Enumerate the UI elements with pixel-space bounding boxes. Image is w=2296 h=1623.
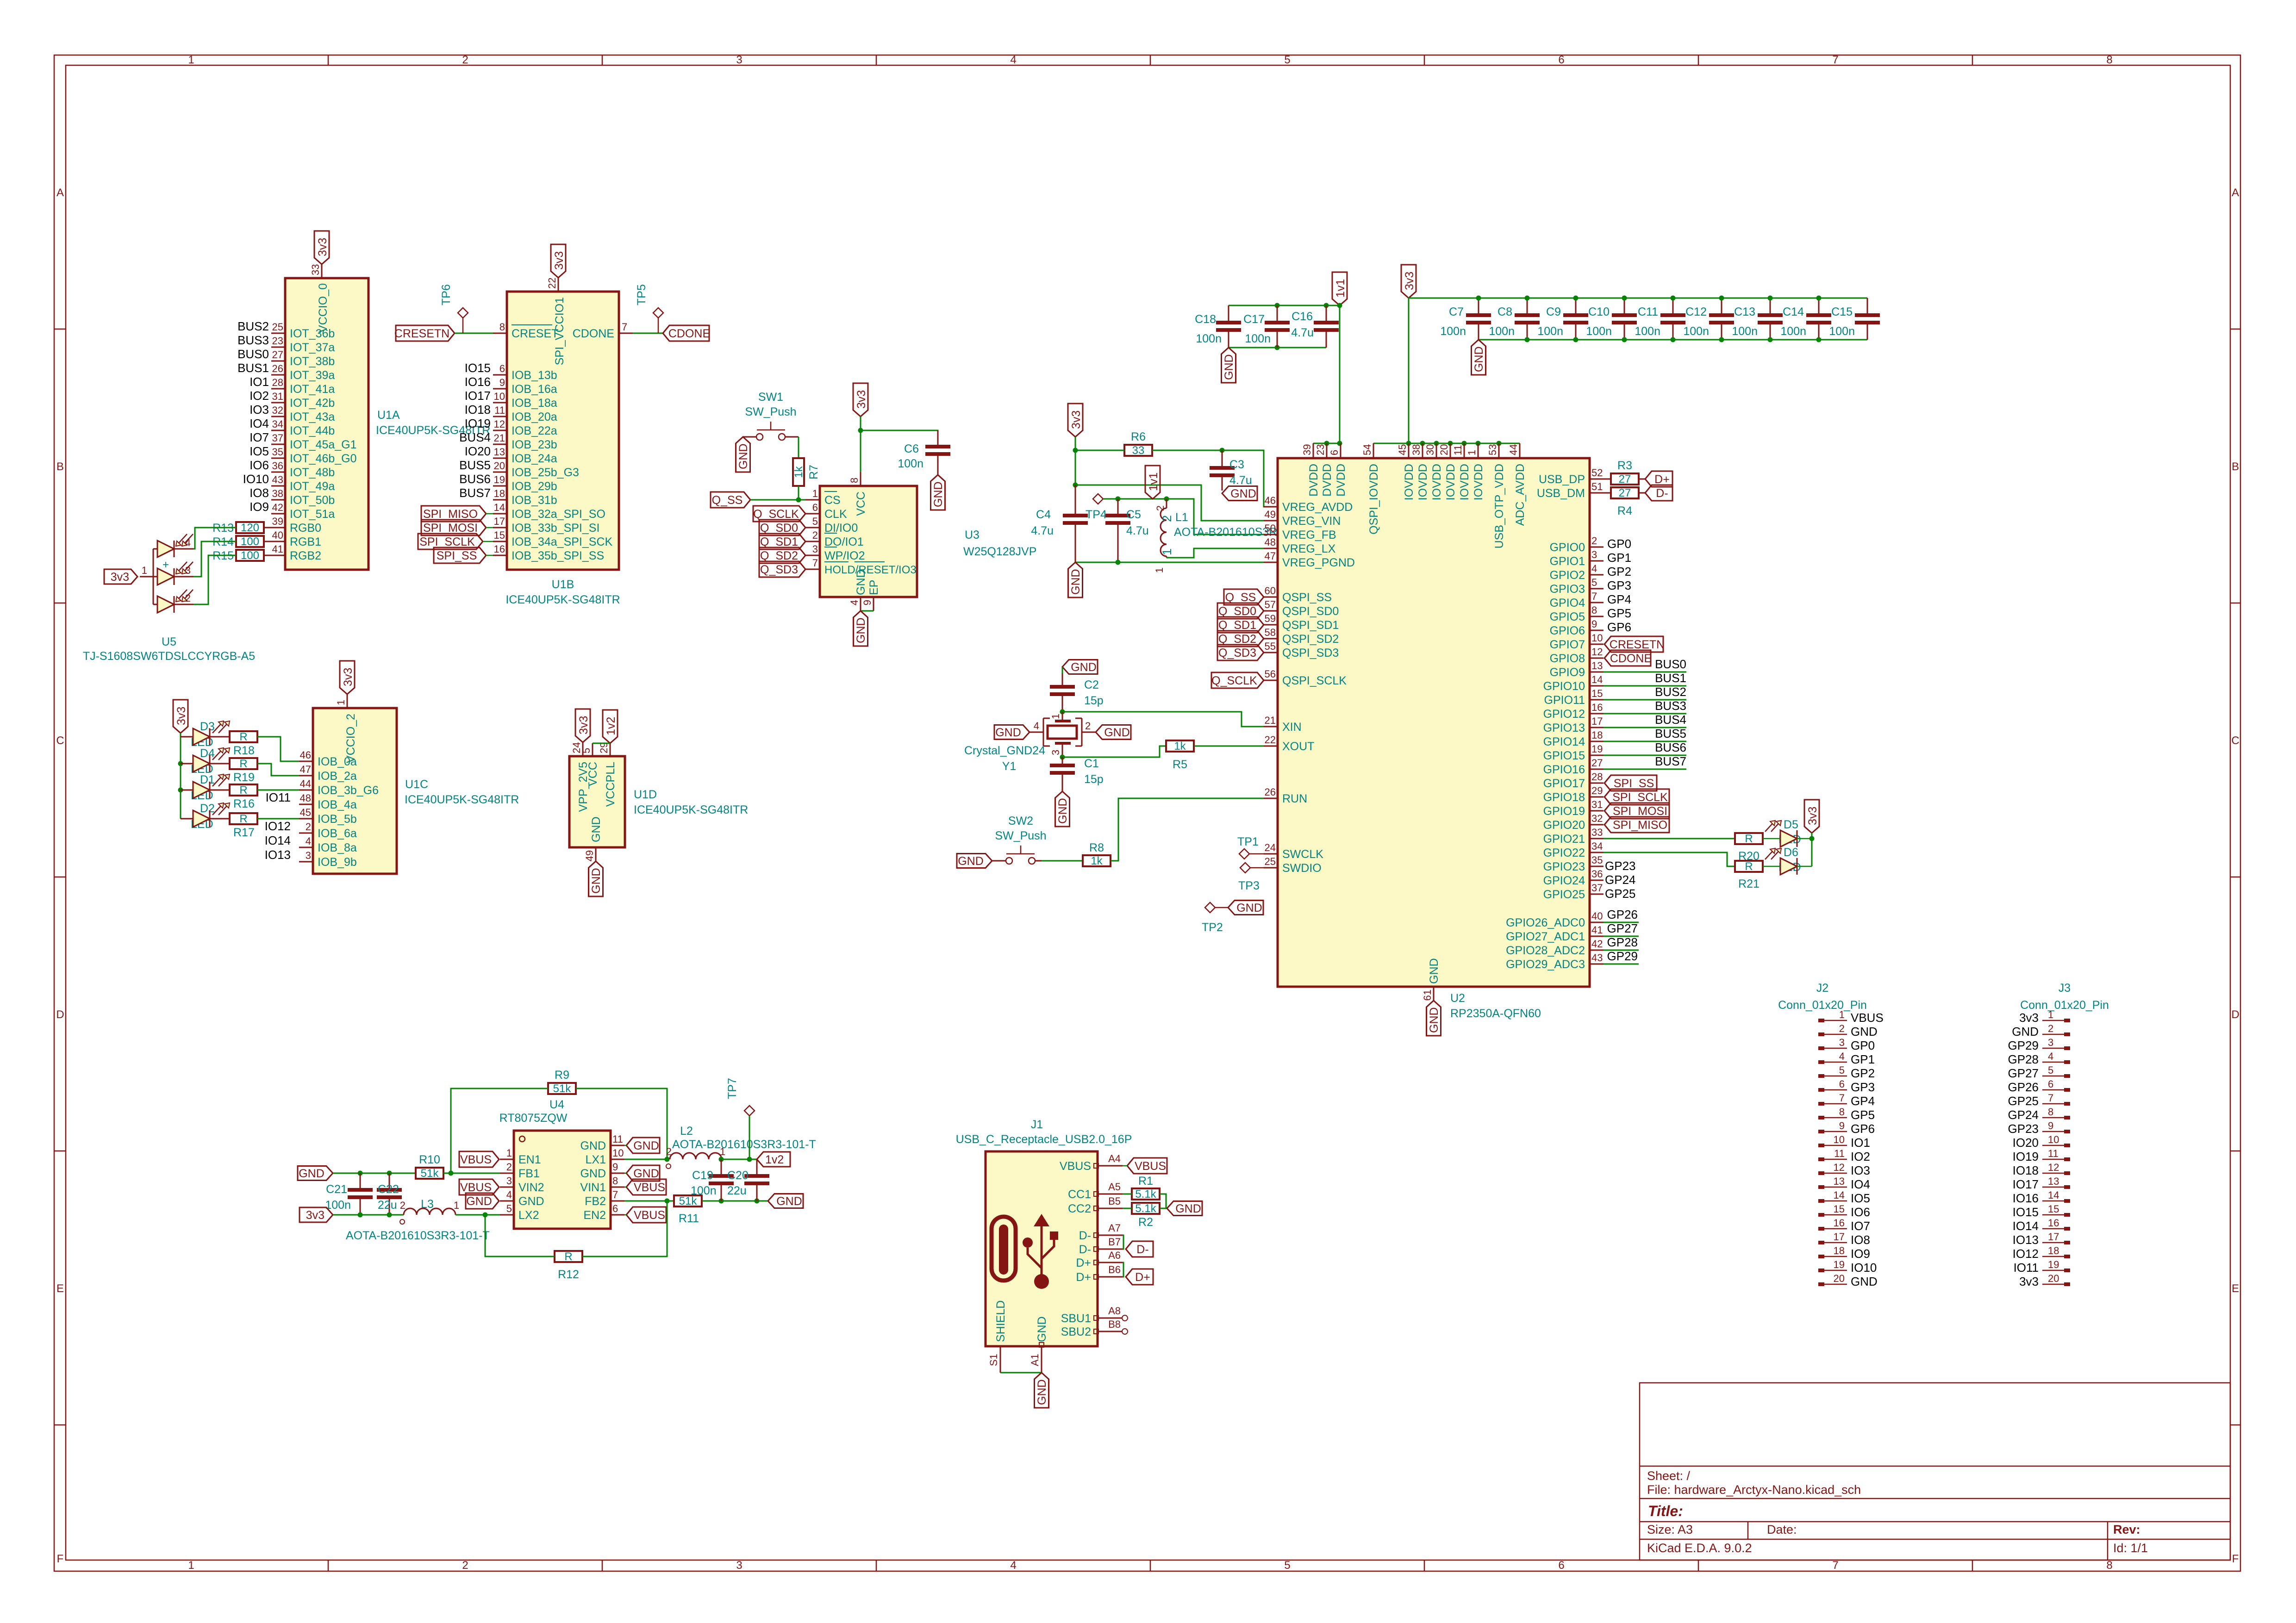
wire Q_SS to U3 pin 1: [750, 499, 805, 501]
wire BUS1: [1603, 685, 1686, 687]
wire: [861, 430, 938, 447]
svg-text:AOTA-B201610S3R3-101-T: AOTA-B201610S3R3-101-T: [346, 1229, 490, 1242]
regulator U4 RT8075ZQW: [499, 1098, 611, 1229]
resistor R9 51k: [548, 1083, 576, 1094]
svg-text:SPI_MISO: SPI_MISO: [423, 508, 478, 521]
pin 2 DO/IO1 of U3: [805, 529, 864, 548]
svg-text:6: 6: [2048, 1078, 2053, 1090]
wire 3v3 rail to L3: [333, 1214, 404, 1216]
svg-text:ICE40UP5K-SG48ITR: ICE40UP5K-SG48ITR: [634, 803, 748, 816]
wire CC1 to R1: [1123, 1194, 1132, 1195]
junction: [178, 761, 183, 766]
pin 23 IOT_37a of U1A: [271, 335, 335, 354]
test point TP4: [1093, 494, 1103, 504]
svg-text:2: 2: [462, 54, 468, 66]
svg-text:R: R: [239, 758, 247, 770]
svg-text:C20: C20: [727, 1169, 749, 1182]
svg-text:BUS2: BUS2: [1655, 685, 1686, 699]
pin 46 VREG_AVDD of U2: [1264, 495, 1353, 514]
svg-text:R: R: [1745, 833, 1753, 845]
capacitor C12 100n: [1721, 298, 1722, 315]
svg-text:40: 40: [272, 529, 283, 541]
svg-text:R: R: [239, 813, 247, 825]
svg-text:C: C: [56, 734, 64, 747]
svg-text:A5: A5: [1108, 1181, 1121, 1193]
svg-text:C5: C5: [1126, 508, 1141, 521]
svg-text:100n: 100n: [1440, 325, 1466, 338]
svg-text:GND: GND: [1851, 1025, 1878, 1038]
svg-text:IO2: IO2: [1851, 1150, 1870, 1163]
svg-text:GP4: GP4: [1607, 592, 1631, 606]
svg-text:GND: GND: [855, 617, 867, 643]
svg-text:C2: C2: [1084, 678, 1099, 691]
junction: [747, 1157, 752, 1162]
svg-text:20: 20: [1438, 444, 1450, 455]
svg-text:QSPI_SD3: QSPI_SD3: [1282, 647, 1339, 659]
svg-text:IO8: IO8: [250, 486, 269, 500]
pin 20 of J3: [2042, 1273, 2070, 1286]
svg-text:36: 36: [1591, 868, 1603, 880]
svg-text:D: D: [2231, 1008, 2239, 1021]
svg-text:13: 13: [1834, 1175, 1845, 1187]
svg-text:BUS1: BUS1: [1655, 671, 1686, 685]
svg-text:3: 3: [306, 850, 311, 861]
global label D+ at J1: [1126, 1269, 1153, 1285]
svg-text:IO13: IO13: [2013, 1233, 2039, 1247]
svg-text:File: hardware_Arctyx-Nano.kic: File: hardware_Arctyx-Nano.kicad_sch: [1647, 1483, 1861, 1497]
svg-text:3v3: 3v3: [1806, 807, 1819, 825]
pin 24 VPP_2V5 of U1D: [582, 742, 584, 756]
svg-text:GP5: GP5: [1607, 606, 1631, 620]
capacitor C18 100n: [1228, 305, 1229, 323]
svg-text:1v2: 1v2: [765, 1153, 784, 1166]
svg-text:17: 17: [1591, 715, 1603, 727]
test point TP5: [653, 308, 663, 318]
svg-text:26: 26: [272, 363, 283, 374]
svg-text:1k: 1k: [1091, 855, 1103, 867]
pin 10 of J2: [1818, 1134, 1847, 1147]
pin 30 IOVDD of U2: [1424, 443, 1443, 500]
svg-text:4: 4: [849, 600, 860, 605]
push button SW1 SW_Push: [743, 391, 799, 440]
svg-text:16: 16: [1591, 702, 1603, 713]
junction: [1275, 345, 1280, 350]
svg-text:4: 4: [185, 537, 191, 548]
power flag 3v3 for U5: [104, 569, 137, 584]
svg-text:GP28: GP28: [1607, 935, 1638, 949]
svg-text:Q_SD1: Q_SD1: [1218, 619, 1256, 632]
pin 60 QSPI_SS of U2: [1264, 585, 1332, 604]
svg-text:12: 12: [1591, 646, 1603, 658]
ground flag label at U4 pin 9: [626, 1165, 660, 1181]
svg-text:F: F: [2232, 1553, 2239, 1565]
svg-text:TP4: TP4: [1086, 508, 1107, 521]
svg-text:16: 16: [1834, 1217, 1845, 1229]
svg-text:3v3: 3v3: [1403, 272, 1416, 290]
svg-text:20: 20: [494, 460, 505, 472]
svg-text:26: 26: [1265, 786, 1276, 798]
pin 34 GPIO22 of U2: [1543, 840, 1603, 859]
pin 1 of J3: [2042, 1009, 2070, 1022]
svg-text:IOB_9b: IOB_9b: [318, 856, 357, 869]
svg-text:IOT_43a: IOT_43a: [290, 410, 335, 423]
svg-text:36: 36: [272, 460, 283, 472]
svg-text:QSPI_SS: QSPI_SS: [1282, 591, 1332, 604]
svg-text:47: 47: [300, 764, 311, 775]
power flag 3v3 for D5 D6: [1804, 800, 1819, 833]
svg-text:34: 34: [1591, 840, 1603, 852]
svg-text:49: 49: [584, 850, 595, 861]
svg-text:GP3: GP3: [1851, 1080, 1875, 1094]
svg-text:5: 5: [1591, 577, 1597, 588]
svg-text:IOB_24a: IOB_24a: [512, 452, 557, 465]
wire: [1313, 443, 1341, 444]
svg-text:CS: CS: [824, 494, 841, 507]
junction: [665, 1199, 670, 1204]
svg-text:SW_Push: SW_Push: [745, 405, 796, 418]
ground flag for input caps: [298, 1166, 333, 1181]
svg-text:CRESETN: CRESETN: [394, 327, 449, 340]
inductor L1 AOTA-B201610S3R3-101-T: [1154, 499, 1318, 573]
pin 37 IOT_45a_G1 of U1A: [271, 432, 357, 451]
svg-text:29: 29: [1591, 785, 1603, 796]
svg-text:D1: D1: [200, 773, 215, 786]
svg-text:A7: A7: [1108, 1222, 1121, 1234]
pin 23 DVDD of U2: [1315, 443, 1334, 497]
svg-text:FB2: FB2: [585, 1195, 606, 1208]
ground flag for C4 C5: [1068, 562, 1083, 597]
svg-text:DVDD: DVDD: [1321, 464, 1334, 497]
svg-text:C9: C9: [1546, 305, 1561, 318]
svg-text:45: 45: [1397, 444, 1408, 455]
svg-text:CC2: CC2: [1068, 1202, 1091, 1215]
junction: [1525, 296, 1530, 301]
svg-text:B5: B5: [1108, 1195, 1121, 1207]
pin 22 SPI_VCCIO1 of U1B: [558, 278, 559, 292]
svg-text:IO19: IO19: [2013, 1150, 2039, 1163]
svg-text:3: 3: [506, 1175, 512, 1187]
svg-text:IOB_29b: IOB_29b: [512, 480, 557, 493]
capacitor C1 15p: [1062, 757, 1063, 765]
svg-text:GPIO0: GPIO0: [1550, 541, 1585, 554]
power flag 3v3 for VREG: [1068, 404, 1083, 437]
svg-text:53: 53: [1487, 444, 1498, 455]
svg-text:28: 28: [272, 377, 283, 388]
svg-text:J1: J1: [1031, 1118, 1043, 1131]
pin 12 of J3: [2042, 1162, 2070, 1175]
junction: [1406, 441, 1411, 446]
pin 14 of J2: [1818, 1189, 1847, 1203]
svg-text:R: R: [1745, 860, 1753, 873]
svg-text:55: 55: [1265, 640, 1276, 652]
svg-text:41: 41: [272, 543, 283, 555]
svg-text:QSPI_SD1: QSPI_SD1: [1282, 619, 1339, 632]
svg-text:ADC_AVDD: ADC_AVDD: [1514, 464, 1527, 526]
wire GPIO21 to R20: [1603, 838, 1735, 839]
svg-text:11: 11: [612, 1133, 623, 1145]
FPGA bank U1B ICE40UP5K-SG48ITR: [505, 292, 620, 606]
svg-text:GND: GND: [580, 1167, 606, 1180]
svg-text:46: 46: [1265, 495, 1276, 506]
test point TP3: [1240, 863, 1250, 873]
svg-text:IO19: IO19: [465, 417, 491, 430]
svg-text:XIN: XIN: [1282, 721, 1302, 734]
svg-text:IO15: IO15: [465, 361, 491, 375]
svg-text:E: E: [56, 1282, 64, 1295]
svg-text:VCCPLL: VCCPLL: [604, 762, 617, 807]
svg-text:42: 42: [272, 502, 283, 513]
pin A5 CC1 of J1: [1068, 1181, 1123, 1201]
svg-text:GPIO27_ADC1: GPIO27_ADC1: [1506, 930, 1585, 943]
svg-text:14: 14: [2048, 1189, 2059, 1201]
svg-text:14: 14: [1834, 1189, 1845, 1201]
wire GP29: [1603, 964, 1639, 965]
svg-text:+: +: [162, 559, 169, 571]
svg-text:GP2: GP2: [1607, 565, 1631, 578]
svg-text:GPIO5: GPIO5: [1550, 610, 1585, 623]
svg-text:BUS7: BUS7: [459, 486, 491, 500]
pin 7 FB2 of U4: [585, 1189, 624, 1208]
svg-text:GP5: GP5: [1851, 1108, 1875, 1122]
svg-text:GPIO23: GPIO23: [1543, 860, 1585, 873]
svg-text:1: 1: [1466, 450, 1478, 455]
global label Q_SD2: [759, 547, 805, 563]
svg-text:1: 1: [2048, 1009, 2053, 1020]
svg-text:USB_DP: USB_DP: [1539, 473, 1585, 486]
svg-text:R21: R21: [1738, 877, 1759, 890]
wire 1v1 down to U2 pin 6: [1339, 305, 1341, 443]
junction: [719, 1199, 724, 1204]
svg-text:CDONE: CDONE: [668, 327, 710, 340]
global label VBUS at VIN1: [626, 1179, 666, 1195]
svg-text:GP29: GP29: [1607, 949, 1638, 963]
svg-text:S1: S1: [988, 1354, 999, 1366]
junction: [1434, 441, 1439, 446]
svg-text:8: 8: [2048, 1106, 2053, 1118]
junction: [1476, 296, 1481, 301]
svg-text:IOT_51a: IOT_51a: [290, 508, 335, 521]
junction: [1719, 296, 1724, 301]
svg-text:5: 5: [1839, 1064, 1845, 1076]
svg-text:GND: GND: [776, 1195, 802, 1208]
svg-text:GND: GND: [1056, 798, 1069, 824]
pin 15 of J2: [1818, 1203, 1847, 1217]
wire TP4 to C5 L1 and VREG_FB: [1103, 499, 1264, 535]
svg-text:B: B: [56, 460, 64, 473]
pin 35 GPIO23 of U2: [1543, 854, 1603, 873]
frame column numbers bottom: [188, 1559, 2112, 1572]
test point TP2: [1205, 902, 1215, 913]
svg-text:RGB1: RGB1: [290, 535, 321, 548]
pin 3 VIN2 of U4: [500, 1175, 544, 1194]
capacitor C10 100n: [1624, 298, 1625, 315]
svg-text:A4: A4: [1108, 1153, 1121, 1164]
junction: [358, 1213, 363, 1218]
pin 43 GPIO29_ADC3 of U2: [1506, 952, 1603, 971]
junction: [1768, 337, 1773, 342]
power flag 3v3 for U1A: [314, 231, 329, 264]
svg-text:IO17: IO17: [2013, 1177, 2039, 1191]
wire SHIELD to GND: [1000, 1372, 1042, 1374]
svg-text:1: 1: [454, 1200, 459, 1211]
svg-text:3: 3: [2048, 1037, 2053, 1048]
svg-text:6: 6: [1839, 1078, 1845, 1090]
svg-text:IOB_32a_SPI_SO: IOB_32a_SPI_SO: [512, 508, 605, 521]
pin 7 GPIO4 of U2: [1550, 591, 1603, 609]
svg-text:Conn_01x20_Pin: Conn_01x20_Pin: [1778, 999, 1867, 1012]
pin 54 QSPI_IOVDD of U2: [1361, 443, 1380, 535]
svg-text:46: 46: [300, 749, 311, 761]
wire R11 to output GND rail: [702, 1200, 768, 1202]
svg-text:GP2: GP2: [1851, 1066, 1875, 1080]
pin 27 GPIO16 of U2: [1543, 757, 1603, 776]
ground flag for C6: [931, 475, 945, 510]
power flag 1v1 for VREG output: [1145, 466, 1160, 499]
global label SPI_SCLK: [418, 534, 483, 549]
svg-text:6: 6: [1558, 54, 1564, 66]
inductor L2 AOTA-B201610S3R3-101-T: [666, 1125, 816, 1169]
pin 28 IOT_41a of U1A: [271, 377, 335, 396]
svg-text:100n: 100n: [1489, 325, 1515, 338]
svg-text:37: 37: [1591, 882, 1603, 894]
ground flag for U2: [1427, 1001, 1441, 1036]
svg-text:1: 1: [188, 54, 194, 66]
pin 17 IOB_33b_SPI_SI of U1B: [493, 516, 599, 535]
LED element 3 of U5 (pin 2): [157, 596, 174, 613]
pin 7 of J2: [1818, 1092, 1847, 1106]
junction: [1573, 337, 1578, 342]
svg-text:AOTA-B201610S3R3-101-T: AOTA-B201610S3R3-101-T: [672, 1138, 816, 1151]
svg-text:VCC: VCC: [855, 491, 867, 516]
svg-text:4: 4: [1591, 563, 1597, 574]
svg-text:28: 28: [1591, 771, 1603, 783]
capacitor C5 4.7u: [1117, 499, 1119, 516]
svg-text:Q_SD3: Q_SD3: [760, 563, 798, 576]
junction: [1337, 441, 1342, 446]
power flag 3v3 for LED bank: [173, 700, 188, 733]
svg-text:16: 16: [494, 543, 505, 555]
resistor R2 5.1k: [1132, 1203, 1160, 1214]
pin S1 SHIELD of J1: [1000, 1346, 1001, 1373]
resistor R15: [236, 550, 264, 561]
pin 2 GPIO0 of U2: [1550, 535, 1603, 554]
svg-text:100n: 100n: [898, 457, 923, 470]
svg-text:VREG_FB: VREG_FB: [1282, 529, 1336, 541]
svg-text:IOT_48b: IOT_48b: [290, 466, 335, 479]
global label SPI_MISO: [421, 506, 486, 522]
wire 3v3 to D5 D6: [1811, 833, 1813, 866]
microcontroller U2 RP2350A-QFN60: [1278, 458, 1590, 1020]
svg-text:5.1k: 5.1k: [1135, 1202, 1156, 1215]
svg-text:IO1: IO1: [250, 375, 269, 389]
pin 18 of J3: [2042, 1245, 2070, 1258]
global label VBUS at EN1: [459, 1151, 499, 1167]
wire R1 R2 to GND: [1160, 1194, 1166, 1208]
capacitor C19 100n: [721, 1159, 722, 1176]
junction: [1497, 441, 1502, 446]
svg-text:SHIELD: SHIELD: [994, 1300, 1007, 1342]
junction: [1337, 303, 1342, 308]
capacitor C17 100n: [1277, 305, 1278, 323]
svg-text:VBUS: VBUS: [634, 1209, 665, 1222]
svg-text:IO14: IO14: [2013, 1219, 2039, 1233]
pin 11 IOB_20a of U1B: [493, 404, 557, 423]
svg-text:3v3: 3v3: [2019, 1011, 2039, 1025]
svg-text:IO8: IO8: [1851, 1233, 1870, 1247]
wire: [1264, 562, 1278, 563]
svg-text:VBUS: VBUS: [1135, 1160, 1166, 1173]
ground flag label at U4 pin 4: [466, 1193, 499, 1209]
ground flag for CC resistors: [1167, 1201, 1202, 1216]
resistor R4 27: [1611, 487, 1639, 498]
svg-text:R5: R5: [1173, 758, 1187, 771]
junction: [1116, 497, 1121, 502]
wire 1v1 rail top: [1229, 305, 1340, 306]
svg-text:SPI_SCLK: SPI_SCLK: [1612, 791, 1668, 804]
svg-text:Rev:: Rev:: [2113, 1523, 2140, 1536]
svg-text:USB_C_Receptacle_USB2.0_16P: USB_C_Receptacle_USB2.0_16P: [956, 1133, 1132, 1146]
svg-text:GP23: GP23: [2008, 1122, 2039, 1136]
svg-text:9: 9: [499, 377, 505, 388]
capacitor C2 15p: [1062, 673, 1063, 687]
global label CDONE at U2: [1604, 650, 1651, 666]
svg-text:DVDD: DVDD: [1335, 464, 1348, 497]
ground flag left of Y1: [994, 725, 1029, 740]
svg-text:4: 4: [2048, 1051, 2053, 1062]
pin 44 IOB_3b_G6 of U1C: [299, 778, 379, 797]
svg-text:ICE40UP5K-SG48ITR: ICE40UP5K-SG48ITR: [405, 793, 519, 806]
svg-text:17: 17: [494, 516, 505, 527]
svg-text:VBUS: VBUS: [1851, 1011, 1884, 1025]
pin 9 of J2: [1818, 1120, 1847, 1133]
svg-text:100: 100: [241, 549, 259, 562]
svg-text:IOVDD: IOVDD: [1403, 464, 1416, 500]
svg-text:D-: D-: [1656, 487, 1668, 500]
svg-text:61: 61: [1422, 989, 1433, 1001]
svg-text:DVDD: DVDD: [1307, 464, 1320, 497]
svg-text:IOB_8a: IOB_8a: [318, 841, 357, 854]
pin 5 VCC of U1D: [592, 743, 593, 756]
pin 14 of J3: [2042, 1189, 2070, 1203]
junction: [1073, 483, 1078, 488]
svg-text:GPIO16: GPIO16: [1543, 763, 1585, 776]
svg-text:GP3: GP3: [1607, 578, 1631, 592]
svg-text:7: 7: [1591, 591, 1597, 602]
pin 13 IOB_24a of U1B: [493, 446, 557, 465]
svg-text:TP3: TP3: [1238, 879, 1260, 892]
capacitor C3 4.7u: [1222, 450, 1223, 468]
svg-text:C11: C11: [1638, 305, 1658, 318]
resistor R18: [230, 731, 257, 742]
svg-text:4.7u: 4.7u: [1291, 326, 1314, 339]
pin 36 GPIO24 of U2: [1543, 868, 1603, 887]
svg-text:VCCIO_0: VCCIO_0: [317, 283, 330, 333]
svg-text:D2: D2: [200, 802, 215, 815]
svg-text:3v3: 3v3: [855, 390, 868, 409]
svg-text:3: 3: [736, 54, 742, 66]
ground flag label at U4 pin 11: [626, 1138, 660, 1153]
svg-text:13: 13: [1591, 660, 1603, 672]
pin 42 GPIO28_ADC2 of U2: [1506, 938, 1603, 957]
pin 7 HOLD/RESET/IO3 of U3: [805, 557, 917, 576]
junction: [1324, 303, 1329, 308]
pin 10 IOB_18a of U1B: [493, 391, 557, 410]
svg-text:BUS3: BUS3: [237, 333, 269, 347]
svg-text:B7: B7: [1108, 1236, 1121, 1248]
svg-text:VIN2: VIN2: [518, 1181, 544, 1194]
svg-text:48: 48: [300, 792, 311, 804]
svg-text:12: 12: [2048, 1162, 2059, 1173]
